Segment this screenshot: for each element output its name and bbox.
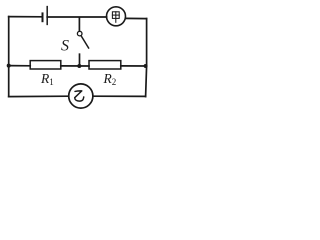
junction node center [77,64,81,68]
wire R2 right lead [121,65,147,67]
wire battery to meter jia [47,16,106,18]
wire middle branch left lead [9,65,31,67]
switch S pivot circle [77,31,82,36]
battery B1 short plate (negative) [42,13,44,21]
wire bottom-left (meter yi to corner) [9,95,69,97]
switch S top stub [78,18,80,32]
wire R1 to center junction [61,65,89,67]
glyph yi (meter B) inside bottom circle [75,91,84,101]
wire left vertical [8,17,10,97]
switch S lower stub [79,54,81,66]
resistor R2 box [89,61,121,69]
junction node left [7,64,11,68]
resistor R1 box [30,61,61,69]
wire meter jia to top-right corner [126,17,147,19]
svg-text:S: S [61,38,69,55]
wire top-left (battery negative lead) [9,16,42,18]
switch S blade (open) [81,36,89,48]
wire bottom-right (to meter yi) [93,95,146,97]
wire right vertical [146,19,147,97]
svg-text:R2: R2 [103,71,117,87]
svg-text:R1: R1 [40,71,54,87]
meter U1 (jia) circle [107,7,126,26]
meter U2 (yi) circle [69,84,93,108]
junction node right [144,64,148,68]
battery B1 tall plate (positive) [46,7,48,25]
glyph jia (meter A) inside top circle [112,12,119,22]
